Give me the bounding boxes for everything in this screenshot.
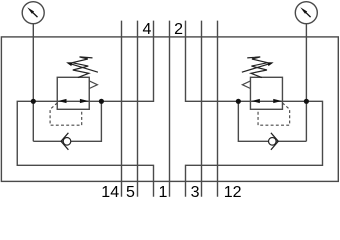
regulator R2 relief triangle	[242, 81, 250, 89]
regulator R2 spring	[247, 57, 267, 78]
regulator R1 spring	[72, 57, 92, 78]
regulator R1 flow arrow left	[58, 99, 67, 103]
wire port line 3 (x=201.5)	[201, 21, 203, 197]
junction node right B	[304, 99, 309, 104]
pressure gauge left	[22, 2, 44, 24]
svg-text:4: 4	[143, 21, 152, 38]
regulator R2 body	[250, 77, 282, 109]
regulator R1 pilot line (dashed)	[50, 103, 82, 125]
enclosure frame	[1, 37, 338, 182]
svg-text:12: 12	[224, 184, 242, 199]
wire port line 4 + regulator R1 feed path	[17, 21, 153, 197]
regulator R1 relief triangle	[89, 81, 97, 89]
svg-text:2: 2	[174, 21, 183, 38]
regulator R2 pilot line (dashed)	[258, 103, 290, 125]
junction node left A	[31, 99, 36, 104]
wire port line 2 + regulator R2 feed path	[186, 21, 323, 197]
svg-text:1: 1	[158, 184, 167, 199]
wire gauge branch right	[305, 24, 307, 142]
regulator R1 body	[57, 77, 89, 109]
junction node left B	[99, 99, 104, 104]
svg-text:5: 5	[126, 184, 135, 199]
regulator R2 flow arrow left	[251, 99, 260, 103]
wire check valve loop right	[238, 101, 306, 141]
pressure gauge right	[295, 2, 317, 24]
wire port line 1 (x=169.5)	[169, 21, 171, 197]
check valve V2	[269, 133, 279, 150]
regulator R2 adjustment arrow	[242, 64, 270, 73]
wire port line 12 (x=217.5)	[217, 21, 219, 197]
svg-text:14: 14	[101, 184, 119, 199]
check valve V1	[61, 133, 71, 150]
junction node right A	[236, 99, 241, 104]
svg-text:3: 3	[191, 184, 200, 199]
wire check valve loop left	[33, 101, 101, 141]
wire port line 14 (x=121.5)	[121, 21, 123, 197]
regulator R2 flow arrow right	[273, 99, 282, 103]
regulator R1 adjustment arrow	[70, 64, 98, 73]
wire port line 5 (x=137.5)	[137, 21, 139, 197]
regulator R1 flow arrow right	[80, 99, 89, 103]
wire gauge branch left	[32, 24, 34, 142]
